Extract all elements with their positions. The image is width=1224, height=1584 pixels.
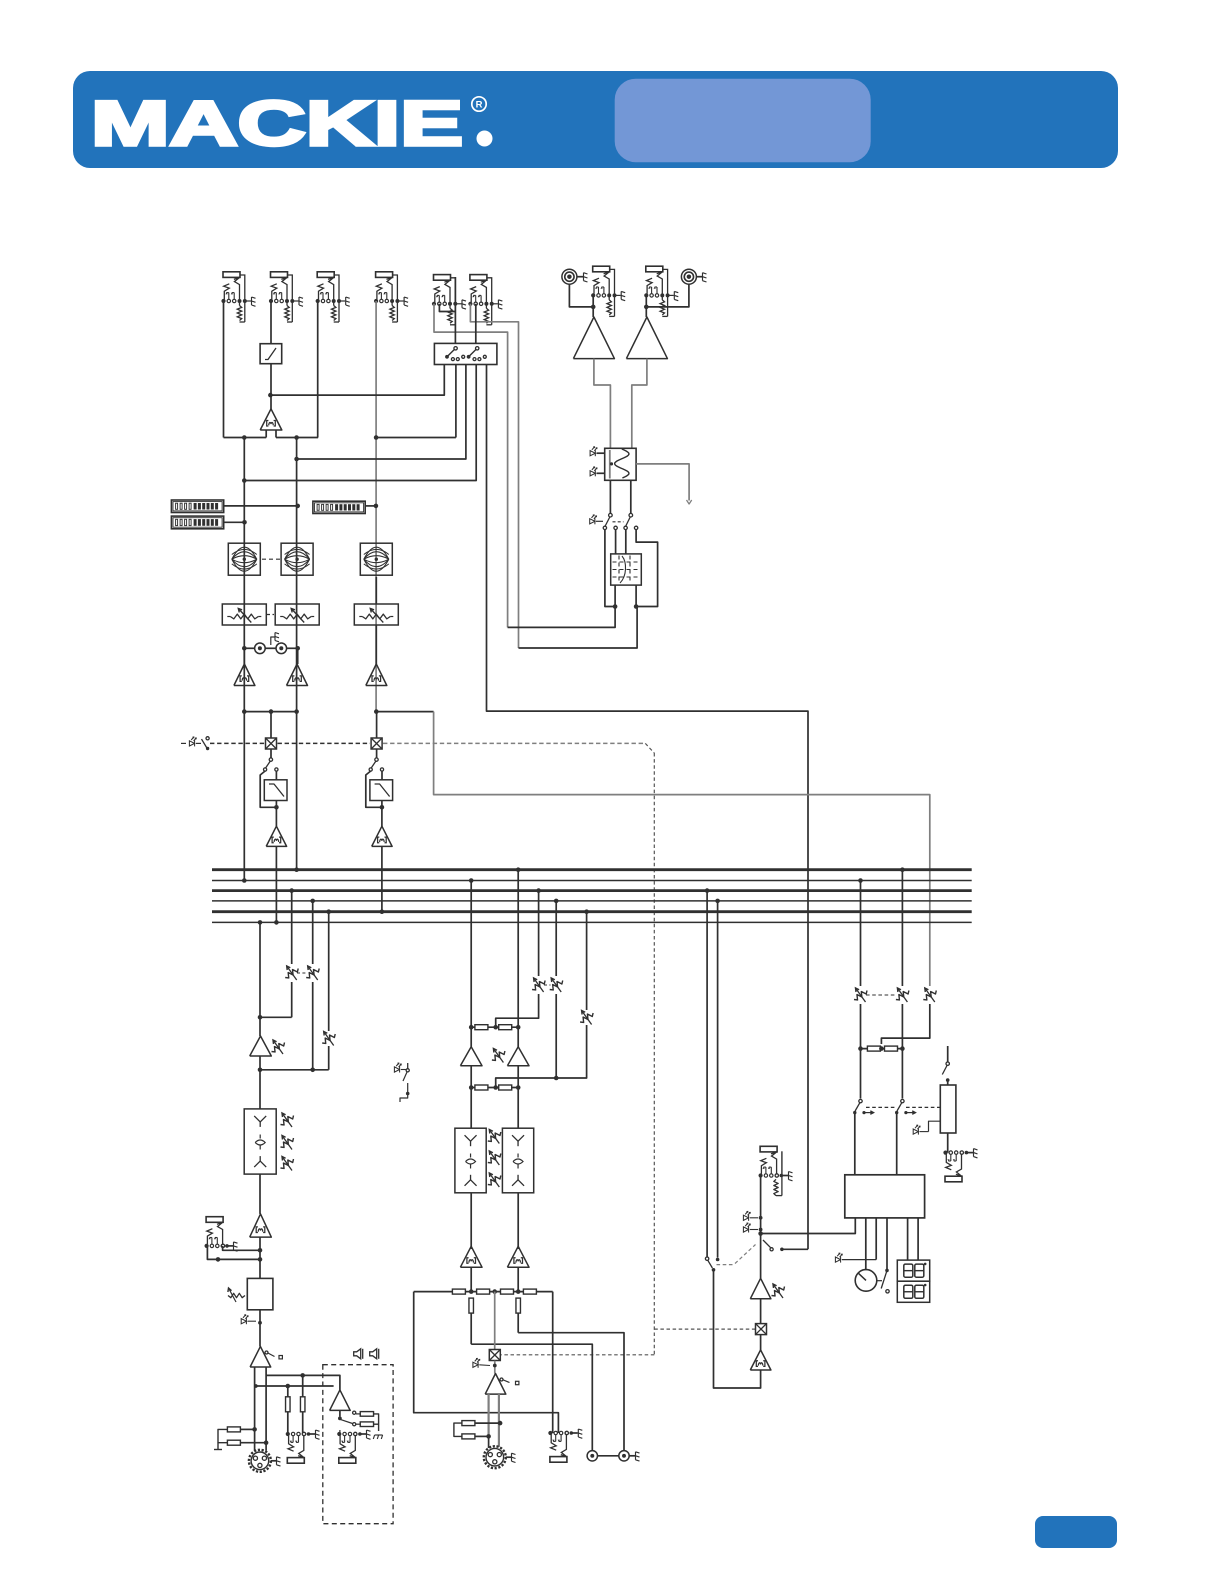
svg-text:MACKIE: MACKIE bbox=[91, 89, 463, 159]
svg-text:R: R bbox=[476, 100, 483, 111]
